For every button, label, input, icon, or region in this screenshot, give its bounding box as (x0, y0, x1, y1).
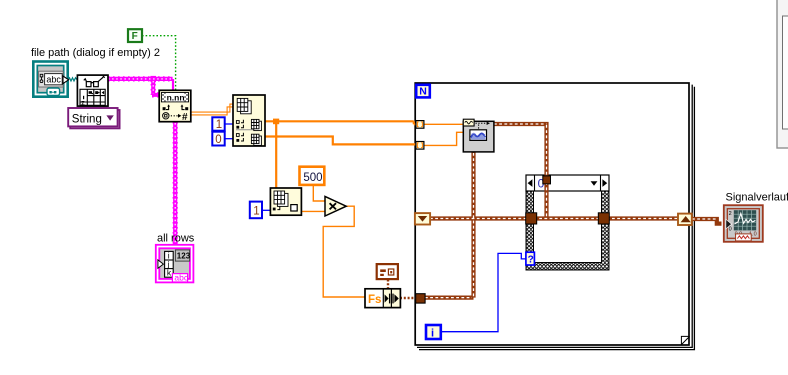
svg-text:123: 123 (177, 252, 191, 261)
svg-text:k: k (167, 268, 172, 278)
svg-text:?: ? (528, 255, 534, 266)
svg-text:2: 2 (729, 211, 732, 217)
svg-text:n.nn: n.nn (167, 93, 185, 103)
svg-text:String: String (72, 114, 102, 126)
svg-text:i: i (431, 327, 434, 339)
svg-text:Σ: Σ (81, 101, 85, 107)
svg-text:F: F (132, 31, 138, 42)
svg-text:all rows: all rows (157, 232, 195, 244)
svg-text:abc: abc (174, 273, 188, 283)
svg-text:1: 1 (216, 119, 222, 131)
svg-text:N: N (419, 86, 427, 98)
svg-text:500: 500 (303, 172, 322, 184)
svg-text:Fs: Fs (368, 294, 381, 306)
svg-text:Signalverlauf: Signalverlauf (726, 191, 788, 203)
svg-text:0: 0 (215, 134, 221, 146)
svg-text:1: 1 (253, 206, 259, 218)
svg-text:abc: abc (46, 75, 61, 85)
svg-text:0: 0 (729, 227, 732, 233)
svg-text:#: # (182, 112, 188, 123)
svg-text:file path (dialog if empty) 2: file path (dialog if empty) 2 (31, 47, 160, 59)
